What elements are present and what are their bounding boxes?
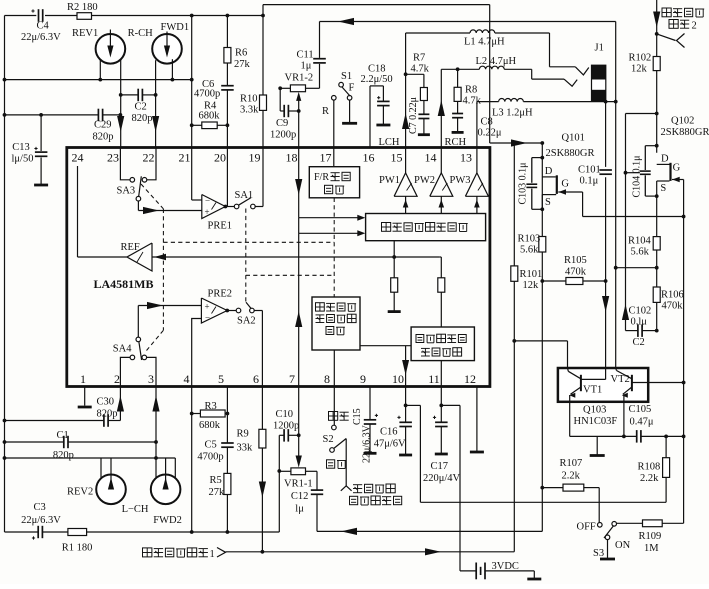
svg-text:C8: C8 xyxy=(481,117,493,128)
svg-text:R3: R3 xyxy=(205,401,217,412)
svg-text:47μ/6V: 47μ/6V xyxy=(374,439,406,450)
svg-text:2.2μ/50: 2.2μ/50 xyxy=(361,74,393,85)
svg-text:FWD2: FWD2 xyxy=(153,515,182,526)
svg-text:R105: R105 xyxy=(564,255,587,266)
svg-text:PRE2: PRE2 xyxy=(208,289,233,300)
svg-text:22μ/6.3V: 22μ/6.3V xyxy=(21,32,61,43)
svg-text:C13: C13 xyxy=(12,142,30,153)
svg-text:C105: C105 xyxy=(629,404,652,415)
svg-text:C29: C29 xyxy=(94,120,112,131)
svg-text:4: 4 xyxy=(184,372,190,386)
svg-text:1μ: 1μ xyxy=(301,61,312,72)
svg-text:5: 5 xyxy=(218,372,224,386)
svg-text:R10: R10 xyxy=(240,94,258,105)
svg-text:G: G xyxy=(673,163,681,174)
svg-text:F: F xyxy=(349,83,355,94)
svg-text:820p: 820p xyxy=(97,409,118,420)
svg-text:C4: C4 xyxy=(37,21,50,32)
svg-text:3: 3 xyxy=(148,372,154,386)
svg-text:Q101: Q101 xyxy=(562,133,585,144)
svg-text:0.1μ: 0.1μ xyxy=(580,176,599,187)
svg-text:G: G xyxy=(561,178,569,189)
svg-text:J1: J1 xyxy=(595,43,604,54)
svg-text:VR1-1: VR1-1 xyxy=(284,479,313,490)
svg-text:VT1: VT1 xyxy=(583,385,602,396)
svg-text:23: 23 xyxy=(107,151,119,165)
svg-text:L2 4.7μH: L2 4.7μH xyxy=(476,56,517,67)
svg-text:C17: C17 xyxy=(431,461,449,472)
svg-text:680k: 680k xyxy=(199,110,221,121)
svg-text:7: 7 xyxy=(289,372,295,386)
svg-text:C15: C15 xyxy=(352,408,363,425)
svg-text:470k: 470k xyxy=(565,267,587,278)
svg-text:17: 17 xyxy=(320,151,332,165)
svg-text:0.22μ: 0.22μ xyxy=(478,128,502,139)
svg-text:C16: C16 xyxy=(380,427,398,438)
svg-text:C5: C5 xyxy=(205,440,217,451)
svg-text:REV1: REV1 xyxy=(72,28,98,39)
svg-text:REF: REF xyxy=(121,242,140,253)
svg-text:18: 18 xyxy=(286,151,298,165)
svg-text:R102: R102 xyxy=(629,53,652,64)
svg-text:R8: R8 xyxy=(465,85,477,96)
svg-text:FWD1: FWD1 xyxy=(161,22,190,33)
svg-text:820p: 820p xyxy=(132,113,153,124)
svg-text:S: S xyxy=(660,183,666,194)
svg-text:33k: 33k xyxy=(237,443,254,454)
svg-text:R107: R107 xyxy=(560,458,583,469)
svg-text:19: 19 xyxy=(249,151,261,165)
svg-text:11: 11 xyxy=(428,372,440,386)
svg-text:C3: C3 xyxy=(34,502,46,513)
svg-text:3.3k: 3.3k xyxy=(240,105,259,116)
svg-text:4700p: 4700p xyxy=(197,452,223,463)
svg-text:2SK880GR: 2SK880GR xyxy=(661,127,709,138)
svg-text:R9: R9 xyxy=(237,429,249,440)
svg-text:C103 0.1μ: C103 0.1μ xyxy=(518,162,529,204)
svg-text:R: R xyxy=(322,106,329,117)
svg-text:1200p: 1200p xyxy=(270,130,296,141)
svg-text:OFF: OFF xyxy=(577,522,596,533)
svg-text:S3: S3 xyxy=(593,548,604,559)
svg-text:C7 0.22μ: C7 0.22μ xyxy=(408,97,419,134)
svg-text:5.6k: 5.6k xyxy=(520,245,539,256)
svg-text:R103: R103 xyxy=(518,234,541,245)
svg-text:820p: 820p xyxy=(93,132,114,143)
svg-text:14: 14 xyxy=(425,151,437,165)
svg-text:R1 180: R1 180 xyxy=(62,543,93,554)
svg-text:4700p: 4700p xyxy=(194,89,220,100)
svg-text:0.47μ: 0.47μ xyxy=(630,417,654,428)
svg-text:10: 10 xyxy=(392,372,404,386)
svg-text:3VDC: 3VDC xyxy=(492,561,519,572)
svg-text:F/R: F/R xyxy=(314,172,329,183)
svg-text:LA4581MB: LA4581MB xyxy=(94,277,154,291)
svg-text:R7: R7 xyxy=(413,53,425,64)
svg-text:R104: R104 xyxy=(628,236,652,247)
svg-text:R2 180: R2 180 xyxy=(67,2,98,13)
svg-text:C18: C18 xyxy=(368,64,386,75)
svg-text:16: 16 xyxy=(363,151,375,165)
svg-text:D: D xyxy=(661,154,669,165)
svg-text:12: 12 xyxy=(464,372,476,386)
svg-text:21: 21 xyxy=(179,151,191,165)
svg-text:C10: C10 xyxy=(276,409,294,420)
svg-text:220μ/4V: 220μ/4V xyxy=(423,473,461,484)
svg-text:lμ/50: lμ/50 xyxy=(12,154,34,165)
svg-text:820p: 820p xyxy=(53,450,74,461)
svg-text:27k: 27k xyxy=(209,487,226,498)
svg-text:C12: C12 xyxy=(291,491,309,502)
svg-text:L1 4.7μH: L1 4.7μH xyxy=(464,37,505,48)
svg-text:C11: C11 xyxy=(297,50,314,61)
svg-text:15: 15 xyxy=(391,151,403,165)
svg-text:R-CH: R-CH xyxy=(128,28,154,39)
svg-text:R106: R106 xyxy=(661,290,684,301)
svg-text:S: S xyxy=(545,197,551,208)
svg-text:4.7k: 4.7k xyxy=(411,64,430,75)
svg-text:22: 22 xyxy=(143,151,155,165)
svg-text:680k: 680k xyxy=(199,420,221,431)
svg-text:PW1: PW1 xyxy=(379,175,400,186)
svg-text:PW2: PW2 xyxy=(414,175,435,186)
svg-text:8: 8 xyxy=(324,372,330,386)
svg-text:C1: C1 xyxy=(57,430,69,441)
svg-text:2.2k: 2.2k xyxy=(562,471,581,482)
svg-text:R101: R101 xyxy=(520,269,543,280)
svg-text:22μ/6.3V: 22μ/6.3V xyxy=(21,515,61,526)
svg-text:SA1: SA1 xyxy=(235,190,254,201)
svg-text:C2: C2 xyxy=(633,337,645,348)
svg-text:C104 0.1μ: C104 0.1μ xyxy=(632,155,643,197)
svg-text:C2: C2 xyxy=(135,102,147,113)
svg-text:470k: 470k xyxy=(662,301,684,312)
svg-text:2SK880GR: 2SK880GR xyxy=(546,148,595,159)
svg-text:C102: C102 xyxy=(629,306,652,317)
svg-text:S2: S2 xyxy=(323,434,334,445)
svg-text:Q102: Q102 xyxy=(671,116,694,127)
svg-text:lμ: lμ xyxy=(295,504,304,515)
svg-text:HN1C03F: HN1C03F xyxy=(574,416,618,427)
svg-text:PRE1: PRE1 xyxy=(208,221,233,232)
svg-text:VR1-2: VR1-2 xyxy=(285,73,314,84)
svg-text:2.2k: 2.2k xyxy=(640,473,659,484)
svg-text:Q103: Q103 xyxy=(583,405,606,416)
svg-text:2: 2 xyxy=(114,372,120,386)
svg-text:12k: 12k xyxy=(523,280,540,291)
svg-text:C9: C9 xyxy=(276,118,288,129)
svg-text:20: 20 xyxy=(214,151,226,165)
svg-text:22μ/6.3V: 22μ/6.3V xyxy=(362,424,373,463)
svg-text:24: 24 xyxy=(72,151,84,165)
svg-text:PW3: PW3 xyxy=(450,175,471,186)
svg-text:L3 1.2μH: L3 1.2μH xyxy=(492,108,533,119)
svg-text:R108: R108 xyxy=(638,462,661,473)
svg-text:L−CH: L−CH xyxy=(122,504,149,515)
svg-text:1200p: 1200p xyxy=(273,421,299,432)
svg-text:2: 2 xyxy=(692,21,697,32)
svg-text:+: + xyxy=(205,302,210,312)
svg-text:13: 13 xyxy=(460,151,472,165)
svg-text:0.lμ: 0.lμ xyxy=(631,317,648,328)
svg-text:C101: C101 xyxy=(578,165,601,176)
svg-text:REV2: REV2 xyxy=(67,487,93,498)
svg-text:−: − xyxy=(205,313,210,323)
svg-text:SA2: SA2 xyxy=(237,316,256,327)
svg-text:9: 9 xyxy=(360,372,366,386)
svg-text:+: + xyxy=(205,207,210,217)
svg-text:C30: C30 xyxy=(97,397,115,408)
svg-text:27k: 27k xyxy=(234,59,251,70)
svg-text:12k: 12k xyxy=(631,64,648,75)
svg-text:SA3: SA3 xyxy=(117,186,136,197)
svg-text:6: 6 xyxy=(253,372,259,386)
svg-text:5.6k: 5.6k xyxy=(631,247,650,258)
svg-text:−: − xyxy=(205,196,210,206)
svg-text:ON: ON xyxy=(615,540,631,551)
svg-text:1: 1 xyxy=(210,549,215,560)
svg-text:R6: R6 xyxy=(235,48,247,59)
svg-text:R109: R109 xyxy=(639,531,662,542)
svg-text:SA4: SA4 xyxy=(113,344,132,355)
svg-text:R5: R5 xyxy=(210,475,222,486)
svg-text:S1: S1 xyxy=(341,71,352,82)
svg-text:1: 1 xyxy=(80,372,86,386)
svg-text:D: D xyxy=(545,166,553,177)
svg-text:1M: 1M xyxy=(644,543,659,554)
